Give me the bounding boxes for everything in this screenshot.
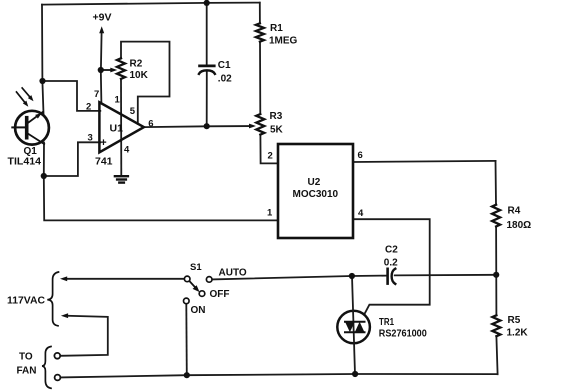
svg-text:MOC3010: MOC3010 [293, 189, 339, 200]
node junction dots [39, 0, 499, 378]
wire top rail [42, 3, 260, 5]
svg-text:4: 4 [358, 208, 364, 219]
svg-text:3: 3 [88, 133, 93, 144]
svg-text:.02: .02 [218, 74, 232, 85]
wire S1 common to 117VAC [67, 278, 185, 280]
node emitter / pin3 [41, 173, 47, 179]
svg-text:2: 2 [268, 151, 273, 162]
transistor Q1 TIL414 [8, 111, 49, 168]
svg-text:2: 2 [86, 102, 91, 113]
capacitor C1 [199, 66, 215, 74]
wire ON contact down [185, 303, 188, 375]
svg-text:6: 6 [358, 150, 363, 161]
wire mid line AUTO to C2 to right rail [212, 275, 496, 280]
node ON line bottom [184, 372, 190, 378]
resistor R2 (pot) [103, 58, 125, 79]
wire node Q1 collector to U1 pin 2 [43, 81, 101, 111]
node right rail C2 [493, 272, 499, 278]
wire 117VAC lower to fan terminal [61, 316, 108, 356]
svg-text:TR1: TR1 [379, 317, 394, 328]
svg-text:AUTO: AUTO [219, 268, 247, 279]
svg-text:R2: R2 [130, 59, 143, 70]
ground (U1 pin 4) [115, 176, 128, 182]
resistor R4 [492, 205, 500, 227]
node triac bottom [352, 371, 358, 377]
svg-text:TIL414: TIL414 [8, 156, 42, 167]
117VAC source arrows [7, 272, 68, 326]
svg-text:U1: U1 [110, 123, 124, 135]
svg-text:117VAC: 117VAC [7, 296, 45, 307]
svg-text:+9V: +9V [93, 11, 112, 23]
resistor R3 (pot) [249, 114, 264, 135]
wire U2 pin 4 to triac gate [353, 219, 430, 316]
TO FAN terminals [17, 347, 61, 389]
triac TR1 [337, 276, 427, 374]
svg-text:1: 1 [267, 208, 273, 219]
capacitor C2 [388, 269, 396, 284]
wire bottom rail [61, 374, 498, 377]
wire R1 R3 branch to U2 pin 2 [260, 3, 278, 164]
svg-text:7: 7 [94, 89, 99, 100]
op-amp U1 [95, 102, 144, 167]
svg-text:4: 4 [124, 145, 130, 156]
light arrows into Q1 [17, 88, 34, 107]
svg-text:1MEG: 1MEG [269, 36, 298, 47]
node triac top [349, 273, 355, 279]
svg-text:+: + [100, 137, 106, 149]
svg-text:ON: ON [191, 305, 206, 316]
wire right rail [496, 161, 498, 374]
svg-text:R1: R1 [270, 23, 283, 34]
wire U1 output to R3 wiper [144, 126, 250, 127]
svg-text:OFF: OFF [210, 289, 230, 300]
wire left rail (collector up / emitter down to U2 pin1) [42, 5, 278, 221]
opto-isolator U2 MOC3010 [278, 144, 353, 238]
svg-text:S1: S1 [190, 262, 202, 273]
node Q1 collector [39, 78, 45, 84]
wire +9V to U1 pin 7 [100, 32, 103, 104]
node output / C1 bottom [204, 123, 210, 129]
svg-text:R5: R5 [508, 315, 521, 326]
wire R2 bottom through U1 to ground [120, 79, 122, 176]
resistor R1 [256, 23, 264, 41]
svg-text:TO: TO [19, 352, 33, 363]
svg-text:10K: 10K [130, 70, 149, 81]
svg-text:C2: C2 [385, 244, 398, 255]
svg-text:180Ω: 180Ω [507, 220, 532, 231]
svg-text:741: 741 [95, 155, 113, 167]
svg-text:0.2: 0.2 [384, 257, 398, 268]
svg-text:6: 6 [148, 118, 153, 129]
node +9V R2 tap [98, 67, 104, 73]
node top C1 tap [204, 0, 210, 6]
wire U2 pin 6 to right rail [353, 161, 496, 162]
wire C1 branch [206, 3, 208, 126]
svg-text:FAN: FAN [17, 366, 37, 377]
resistor R5 [492, 315, 500, 336]
svg-text:R4: R4 [508, 205, 521, 216]
switch S1 [184, 262, 247, 316]
svg-text:5K: 5K [270, 124, 284, 135]
svg-text:1.2K: 1.2K [507, 327, 529, 338]
wire U1 pin 3 to emitter node [44, 142, 101, 176]
svg-text:1: 1 [115, 95, 121, 106]
svg-text:RS2761000: RS2761000 [379, 328, 427, 339]
wire R2 loop to U1 pin 5 [121, 42, 170, 124]
svg-text:5: 5 [130, 106, 136, 117]
svg-text:U2: U2 [308, 177, 321, 188]
svg-text:C1: C1 [218, 60, 231, 71]
+9V supply [93, 11, 112, 33]
svg-text:R3: R3 [270, 111, 283, 122]
